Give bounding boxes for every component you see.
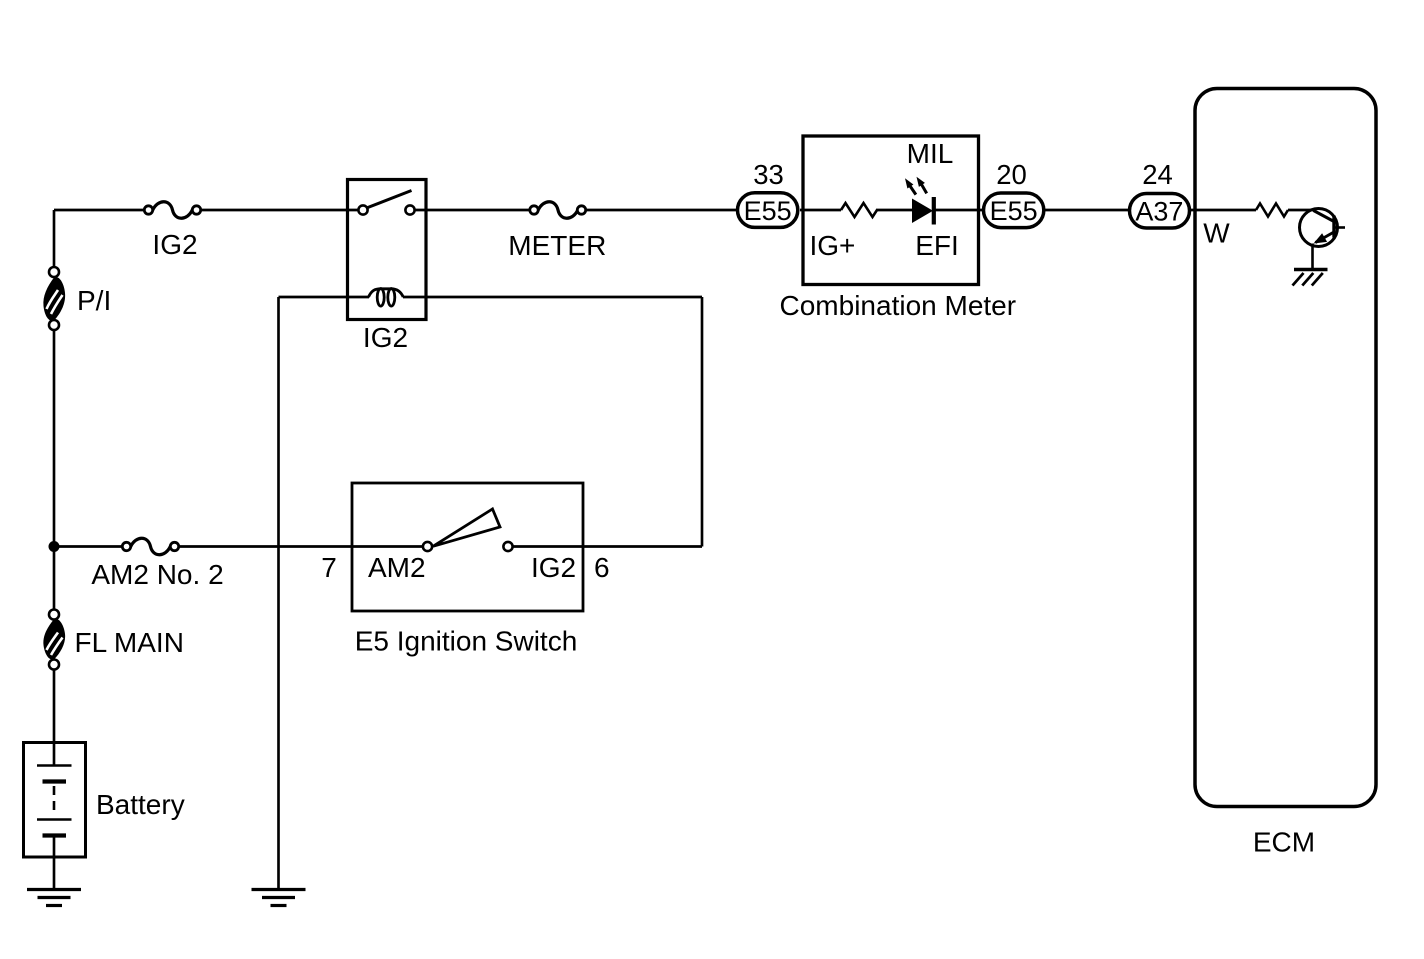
svg-text:24: 24 <box>1142 159 1173 190</box>
svg-text:EFI: EFI <box>915 230 959 261</box>
svg-text:AM2 No. 2: AM2 No. 2 <box>91 559 223 590</box>
svg-text:20: 20 <box>996 159 1027 190</box>
svg-text:METER: METER <box>508 230 606 261</box>
svg-text:Combination Meter: Combination Meter <box>780 290 1017 321</box>
svg-text:A37: A37 <box>1135 197 1183 227</box>
svg-text:MIL: MIL <box>907 138 954 169</box>
svg-text:FL MAIN: FL MAIN <box>75 627 184 658</box>
svg-text:E55: E55 <box>990 196 1038 226</box>
svg-text:W: W <box>1203 218 1230 249</box>
svg-text:ECM: ECM <box>1253 827 1315 858</box>
svg-text:Battery: Battery <box>96 789 185 820</box>
svg-text:E55: E55 <box>744 196 792 226</box>
svg-text:7: 7 <box>321 552 337 583</box>
svg-text:33: 33 <box>753 159 784 190</box>
svg-text:6: 6 <box>594 552 610 583</box>
svg-text:IG2: IG2 <box>531 552 576 583</box>
svg-text:IG+: IG+ <box>810 230 856 261</box>
svg-text:P/I: P/I <box>77 285 111 316</box>
svg-text:AM2: AM2 <box>368 552 426 583</box>
svg-text:IG2: IG2 <box>152 229 197 260</box>
svg-text:IG2: IG2 <box>363 322 408 353</box>
svg-text:E5 Ignition Switch: E5 Ignition Switch <box>355 626 578 657</box>
